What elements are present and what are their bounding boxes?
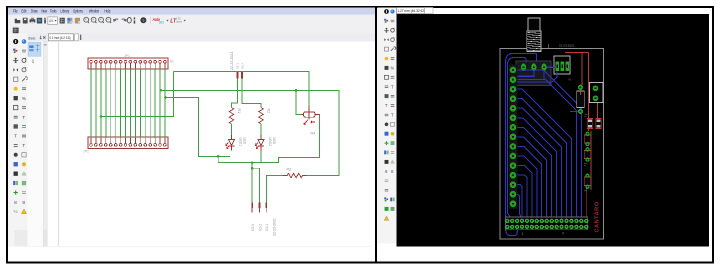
sheets panel xyxy=(28,42,48,247)
svg-text:360: 360 xyxy=(159,20,165,24)
junction node N3 LED1 xyxy=(217,155,220,158)
wire X1-1 to R1 xyxy=(232,79,238,108)
svg-text:JP2: JP2 xyxy=(83,150,89,154)
PCB canvas xyxy=(397,14,710,247)
LED LED1 xyxy=(226,135,247,150)
diode D5 footprint xyxy=(584,174,591,189)
svg-text:22-23-2021: 22-23-2021 xyxy=(230,52,234,70)
diode D2 footprint xyxy=(596,119,602,129)
menu bar xyxy=(8,8,375,15)
copper trace fan bundle xyxy=(516,70,581,218)
wire to X2-3 xyxy=(251,163,253,203)
junction node on pin3 wire xyxy=(100,115,103,118)
resistor R1 xyxy=(229,108,241,125)
trimmer R4 xyxy=(302,106,320,136)
junction node X2-3 tap xyxy=(251,161,254,164)
wire LED2 cathode drop xyxy=(260,151,262,163)
junction node X2-2 tap xyxy=(251,167,254,170)
wire net N1 top xyxy=(174,71,309,106)
svg-text:CANTARO: CANTARO xyxy=(594,201,600,232)
svg-text:X2-2: X2-2 xyxy=(258,224,262,231)
svg-text:22-23-2031: 22-23-2031 xyxy=(273,218,277,236)
junction node N2 left xyxy=(159,89,162,92)
svg-text:R4: R4 xyxy=(311,132,316,136)
svg-text:%: % xyxy=(391,66,395,71)
inductor coil footprint xyxy=(527,18,549,52)
right tool sidebar xyxy=(378,8,397,244)
connector footprint X xyxy=(590,83,604,103)
resistor R3 xyxy=(283,168,306,178)
toolbar row 1 xyxy=(8,16,375,27)
diode D3 footprint xyxy=(584,132,591,147)
svg-text:US: US xyxy=(49,19,54,23)
copper trace left edge verticals xyxy=(506,54,537,236)
wire to X2-2 xyxy=(252,168,259,202)
svg-text:0.1 inch (6.2 3.8): 0.1 inch (6.2 3.8) xyxy=(50,36,71,40)
tab row / sheets header xyxy=(8,34,375,42)
junction node N3 left xyxy=(164,96,167,99)
panel divider xyxy=(375,7,377,263)
sheet frame bottom xyxy=(27,245,371,247)
svg-text:X1-2: X1-2 xyxy=(241,63,245,69)
coordinate box xyxy=(48,34,73,41)
toolbar row 2 xyxy=(8,27,375,34)
svg-text:JP1: JP1 xyxy=(124,54,130,58)
svg-text:%: % xyxy=(22,96,26,101)
wire X1-2 to R2 xyxy=(242,79,261,108)
svg-text:LED2: LED2 xyxy=(268,138,272,147)
wire bus JP1-JP2 verticals xyxy=(91,69,165,138)
svg-text:R1: R1 xyxy=(237,109,241,114)
diode D1 footprint xyxy=(587,119,593,129)
svg-text:22-23-2021: 22-23-2021 xyxy=(559,44,575,48)
svg-text:X1-1: X1-1 xyxy=(236,63,240,69)
silkscreen tick labels xyxy=(584,115,587,191)
svg-text:spice: spice xyxy=(176,21,182,24)
svg-text:%: % xyxy=(14,209,18,214)
svg-text:LED: LED xyxy=(242,138,246,145)
svg-text:LED1: LED1 xyxy=(239,138,243,147)
svg-text:LED: LED xyxy=(272,138,276,145)
wire net N2 bus xyxy=(161,90,339,175)
svg-text:Sheets: Sheets xyxy=(28,36,36,41)
svg-text:Help: Help xyxy=(104,9,110,14)
wire net N3 lower bus xyxy=(218,115,319,163)
resistor R2 xyxy=(259,108,271,125)
wire R2 to LED2 xyxy=(260,124,262,135)
copper trace to resistor pad xyxy=(570,110,578,112)
svg-text:Library: Library xyxy=(61,9,70,14)
svg-text:2: 2 xyxy=(522,232,524,236)
svg-text:X2-3: X2-3 xyxy=(251,224,255,231)
svg-text:View: View xyxy=(41,9,47,14)
silkscreen red net xyxy=(565,53,598,218)
header footprint with oval pads xyxy=(516,61,551,86)
left tool sidebar xyxy=(8,34,28,247)
wire net N1 left drop xyxy=(101,71,174,116)
dock splitter xyxy=(57,42,59,247)
svg-text:R2: R2 xyxy=(267,109,271,114)
svg-text:X2-1: X2-1 xyxy=(265,224,269,231)
svg-text:Options: Options xyxy=(73,9,83,14)
diode D4 footprint xyxy=(584,147,591,162)
resistor footprint R xyxy=(577,85,585,114)
sheets scrollbar xyxy=(43,42,47,247)
right coordinate box xyxy=(397,8,425,14)
svg-text:Tools: Tools xyxy=(50,9,57,14)
svg-text:8: 8 xyxy=(22,200,25,206)
junction node N2 at R4 xyxy=(295,89,298,92)
wire R1 to LED1 xyxy=(231,124,233,135)
wire net N3 xyxy=(166,98,230,157)
screw terminal footprint xyxy=(554,56,570,74)
svg-text:Window: Window xyxy=(89,9,99,14)
svg-text:R3: R3 xyxy=(287,168,292,172)
bottom header footprint xyxy=(505,217,588,236)
svg-text:T: T xyxy=(14,134,17,139)
svg-text:N: N xyxy=(569,78,571,82)
svg-text:T: T xyxy=(22,143,25,148)
svg-text:Edit: Edit xyxy=(22,9,28,14)
connector X2 22-23-2031 xyxy=(251,203,276,237)
wire to R4 left pin xyxy=(296,90,302,114)
connector X1 22-23-2021 xyxy=(230,52,245,79)
svg-text:Draw: Draw xyxy=(31,9,38,14)
through-hole pad column xyxy=(509,65,518,210)
svg-text:File: File xyxy=(13,9,18,14)
wire R3 to X2-1 xyxy=(266,176,283,203)
LED LED2 xyxy=(255,135,276,150)
svg-text:T: T xyxy=(22,115,25,120)
PCB board outline xyxy=(500,49,604,240)
connector JP1 xyxy=(88,54,174,69)
connector JP2 xyxy=(83,137,168,154)
copper traces from oval pads xyxy=(517,54,557,83)
svg-text:8: 8 xyxy=(14,200,17,206)
